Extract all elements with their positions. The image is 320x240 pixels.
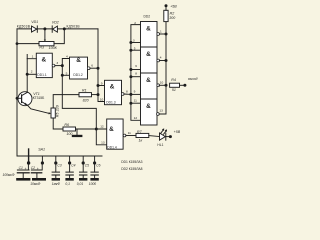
svg-text:DD1 К155ЛА3: DD1 К155ЛА3: [121, 160, 142, 164]
svg-text:9: 9: [134, 89, 136, 93]
wire DD1.3 pin9: [98, 85, 105, 87]
node junction (28.6,162): [27, 161, 30, 164]
svg-text:VD2: VD2: [52, 20, 59, 24]
wire: [17, 169, 29, 171]
wire R3 left: [17, 43, 39, 45]
wire: [91, 174, 98, 176]
svg-text:10мкФ: 10мкФ: [30, 182, 40, 186]
wire: [55, 163, 57, 172]
wire DD1.2 input node vertical, continues to DD1.4 inputs: [62, 59, 96, 130]
svg-text:выход: выход: [188, 77, 198, 81]
node junction (184.9,85.3): [183, 84, 186, 87]
svg-text:КД503В: КД503В: [17, 25, 31, 29]
wire: [180, 84, 184, 86]
node DD1.4 inputs junction: [95, 128, 98, 131]
svg-text:0,01: 0,01: [77, 182, 84, 186]
diode VD1: [32, 26, 38, 32]
svg-text:DD1.4: DD1.4: [107, 145, 117, 149]
op-amp U: gate DD1.1: [36, 53, 55, 77]
wire: [159, 84, 166, 86]
resistor R7: [136, 133, 149, 137]
wire DD1.1 pin1: [27, 55, 36, 59]
wire: [22, 102, 28, 106]
wire: [131, 69, 141, 71]
svg-text:12: 12: [134, 116, 138, 120]
wire: [76, 129, 78, 135]
svg-text:10: 10: [100, 97, 104, 101]
DD2 output bubbles: [157, 33, 160, 36]
node junction (166,34): [165, 33, 168, 36]
wire: [82, 163, 84, 172]
svg-text:6: 6: [135, 64, 137, 68]
svg-text:R5: R5: [55, 113, 59, 118]
node junction (55.8,162): [54, 161, 57, 164]
wire: [41, 156, 43, 162]
node junction (94.6,162): [93, 161, 96, 164]
wire: [141, 72, 158, 74]
svg-text:51: 51: [172, 88, 176, 92]
svg-text:2: 2: [134, 21, 136, 25]
wire: [69, 156, 71, 162]
svg-text:5: 5: [66, 72, 68, 76]
wire DD1.1 out: [55, 65, 63, 67]
wire: [17, 97, 22, 99]
svg-text:&: &: [76, 57, 81, 64]
svg-text:+: +: [37, 167, 39, 171]
wire: [131, 93, 141, 95]
svg-text:100мкФ: 100мкФ: [3, 173, 15, 177]
resistor R3 (pot): [39, 42, 54, 46]
node R3 left on rail: [16, 42, 19, 45]
svg-text:DD1.1: DD1.1: [37, 73, 47, 77]
capacitor C1: [16, 163, 30, 181]
svg-text:КД503В: КД503В: [67, 25, 81, 29]
svg-text:C5: C5: [85, 163, 89, 167]
wire VT1 collector up: [26, 59, 28, 93]
svg-text:13: 13: [159, 109, 163, 113]
node +5V top: [165, 4, 168, 7]
svg-text:DD1.2: DD1.2: [73, 73, 83, 77]
svg-text:&: &: [146, 51, 151, 58]
wire R6 right to ground and on: [76, 128, 107, 130]
svg-text:C1: C1: [19, 166, 23, 170]
wire: [66, 174, 73, 176]
diode VD2: [52, 26, 57, 32]
node collector junction on pin2 wire: [26, 73, 29, 76]
wire DD1.2 pin5: [62, 74, 69, 76]
wire top right segment down at x=98: [98, 29, 105, 102]
svg-text:+5В: +5В: [174, 130, 181, 134]
svg-text:220: 220: [55, 105, 59, 112]
wire: [22, 173, 24, 178]
svg-text:820: 820: [83, 98, 89, 102]
ground: [65, 178, 73, 181]
ground: [72, 135, 83, 137]
wire left rail: [17, 29, 102, 156]
wire: [131, 76, 141, 78]
svg-text:DD2 К155ЛА8: DD2 К155ЛА8: [121, 167, 142, 171]
wire R7 to LED: [149, 135, 160, 138]
ground: [16, 178, 30, 181]
wire: [159, 22, 166, 114]
svg-text:2: 2: [31, 70, 33, 74]
wire: [165, 7, 167, 10]
wire R5top-R1 horizontal: [53, 95, 79, 108]
svg-text:8: 8: [135, 71, 137, 75]
LED HL1: [160, 128, 168, 140]
ground: [32, 178, 46, 181]
wire: [55, 156, 57, 162]
wire R5 bottom: [53, 118, 63, 129]
svg-text:+: +: [25, 167, 27, 171]
svg-text:100К: 100К: [49, 46, 58, 50]
wire DD2 input bus vertical: [131, 25, 141, 121]
wire: [94, 163, 96, 172]
svg-text:&: &: [42, 56, 47, 63]
op-amp U: gate DD1.2: [70, 57, 91, 79]
wire top horizontal: [17, 28, 98, 30]
svg-text:VD1: VD1: [31, 20, 38, 24]
wire +5V rail right: [159, 33, 166, 35]
capacitor C3: [52, 163, 60, 181]
svg-text:R1: R1: [82, 88, 87, 92]
wire DD1.4 out: [126, 135, 136, 137]
wire DD1.3 out: [124, 93, 131, 95]
svg-text:6: 6: [91, 64, 93, 68]
svg-text:КТ315Б: КТ315Б: [33, 96, 45, 100]
wire: [94, 176, 96, 179]
wire: [36, 26, 38, 32]
svg-text:&: &: [146, 25, 151, 32]
node junction (166,60.5): [165, 59, 168, 62]
svg-text:8: 8: [126, 90, 128, 94]
wire: [55, 176, 57, 179]
capacitor C2: [31, 163, 46, 181]
resistor R1: [79, 93, 92, 97]
resistor R6: [63, 127, 76, 131]
svg-text:C2: C2: [31, 166, 35, 170]
transistor Q VT1: [17, 92, 32, 106]
wire LED to +5V: [166, 136, 169, 138]
node junction (130.9,50.2): [129, 49, 132, 52]
wire DD2 inputs: [131, 42, 141, 44]
node junction (17,98.3): [16, 97, 19, 100]
op-amp U: gate DD1.3: [105, 80, 125, 104]
wire: [27, 163, 29, 170]
svg-text:C3: C3: [57, 163, 61, 167]
node junction (130.9,103.2): [129, 102, 132, 105]
wire: [131, 49, 141, 51]
svg-text:HL1: HL1: [157, 143, 163, 147]
wire: [22, 92, 28, 95]
node junction (170.4,136.6): [169, 135, 172, 138]
svg-text:R3: R3: [39, 46, 44, 50]
svg-text:5: 5: [134, 46, 136, 50]
wire: [161, 130, 163, 133]
svg-text:4: 4: [66, 54, 68, 58]
wire: [165, 133, 167, 140]
svg-text:3: 3: [56, 61, 58, 65]
capacitor C4: [65, 163, 73, 181]
wire R1 right: [92, 94, 99, 96]
svg-text:+5В: +5В: [170, 4, 177, 8]
wire DD1.4 pin13: [96, 129, 106, 145]
wire VT1 emitter to R5 wiper: [27, 105, 48, 113]
node junction (62.3,75.3): [61, 74, 64, 77]
svg-text:&: &: [146, 103, 151, 110]
svg-text:13: 13: [101, 141, 105, 145]
wire: [91, 171, 98, 173]
svg-text:1: 1: [32, 54, 34, 58]
svg-text:1к: 1к: [139, 139, 143, 143]
svg-text:DD1.3: DD1.3: [106, 101, 116, 105]
node junction (130.9,76.7): [129, 75, 132, 78]
wire: [80, 171, 87, 173]
node junction (166,85.3): [165, 84, 168, 87]
svg-text:DD2: DD2: [144, 15, 151, 19]
node junction (130.9,69.5): [129, 68, 132, 71]
op-amp U: gate DD1.4: [107, 119, 126, 149]
svg-text:1: 1: [160, 29, 162, 33]
svg-text:10: 10: [160, 80, 164, 84]
node junction (42.4,162): [41, 161, 44, 164]
wire: [82, 156, 84, 162]
wire: [51, 26, 53, 32]
svg-text:3: 3: [133, 38, 135, 42]
svg-text:&: &: [146, 77, 151, 84]
node junction (98,94.6): [97, 93, 100, 96]
wire DD1.1 pin2: [27, 73, 36, 75]
ground: [52, 178, 60, 181]
node junction (130.9,42.5): [129, 41, 132, 44]
svg-text:100: 100: [66, 132, 72, 136]
svg-text:11: 11: [128, 131, 131, 135]
wire: [69, 163, 71, 172]
svg-text:1мкФ: 1мкФ: [52, 182, 61, 186]
wire: [17, 172, 29, 174]
wire: [31, 169, 41, 171]
svg-text:SA1: SA1: [38, 147, 45, 151]
wire: [66, 171, 73, 173]
wire: [36, 173, 38, 178]
svg-text:0,1: 0,1: [65, 182, 70, 186]
wire: [141, 98, 158, 100]
resistor R5 (trimmer): [51, 108, 55, 118]
ground: [79, 178, 87, 181]
svg-text:4: 4: [160, 56, 162, 60]
wire: [94, 156, 96, 162]
node junction (98,68.2): [97, 67, 100, 70]
node junction VD1-VD2: [43, 27, 46, 30]
wire: [52, 174, 59, 176]
chip DD2 box: [141, 22, 158, 126]
node junction (62.3,65.6): [61, 64, 64, 67]
switch contacts: [41, 156, 96, 165]
ground: [90, 178, 98, 181]
wire: [131, 102, 141, 104]
svg-text:R6: R6: [64, 123, 69, 127]
svg-text:9: 9: [101, 81, 103, 85]
wire: [80, 174, 87, 176]
wire: [69, 176, 71, 179]
switch SA1 arm: [28, 149, 30, 162]
svg-text:&: &: [110, 84, 115, 91]
node junction (83.2,162): [82, 161, 85, 164]
wire: [159, 60, 166, 62]
node junction (69.6,162): [68, 161, 71, 164]
svg-text:1000: 1000: [89, 182, 97, 186]
svg-text:300: 300: [169, 16, 175, 20]
wire: [41, 163, 43, 170]
wire DD1.2 out: [90, 67, 98, 69]
svg-text:11: 11: [134, 99, 137, 103]
resistor R2: [164, 10, 168, 21]
wire: [52, 171, 59, 173]
svg-text:R4: R4: [171, 78, 176, 82]
wire: [31, 172, 41, 174]
wire: [141, 46, 158, 48]
node junction (130.9,94.4): [129, 93, 132, 96]
svg-text:&: &: [109, 126, 114, 133]
resistor R4: [170, 83, 180, 87]
capacitor C5: [79, 163, 87, 181]
node junction (98,85.5): [97, 84, 100, 87]
svg-text:C6: C6: [96, 163, 100, 167]
capacitor C6: [90, 163, 98, 181]
wire: [21, 95, 23, 103]
svg-text:C4: C4: [71, 163, 75, 167]
wire R3 right up to VD2 node: [54, 29, 64, 44]
wire R3 wiper: [44, 29, 46, 40]
wire: [164, 131, 166, 134]
svg-text:12: 12: [100, 125, 104, 129]
wire: [82, 176, 84, 179]
node junction VD2-right: [63, 27, 66, 30]
